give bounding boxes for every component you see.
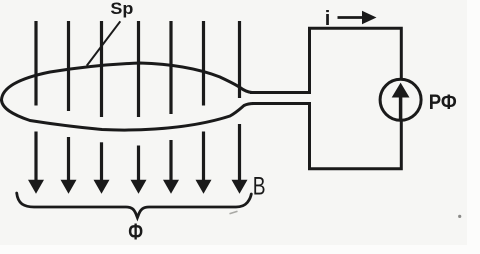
smudge artifact under brace right <box>230 211 238 214</box>
field line B7 <box>232 21 248 194</box>
field line B1 <box>28 21 44 194</box>
coil Sp (elliptical loop) <box>2 63 255 130</box>
wire: bottom lead and lower-left circuit side <box>252 104 401 169</box>
svg-text:B: B <box>253 173 266 201</box>
svg-text:РФ: РФ <box>429 90 457 114</box>
svg-text:Ф: Ф <box>128 219 143 245</box>
leader line from Sp to coil <box>87 21 121 65</box>
flux meter РФ (circle) <box>380 79 421 120</box>
field line B6 <box>196 21 212 194</box>
brace under field lines <box>17 193 252 218</box>
current arrow i <box>338 11 377 24</box>
speck artifact near bottom right <box>458 215 461 218</box>
field line B4 <box>131 21 147 194</box>
svg-text:i: i <box>325 8 331 30</box>
wire: top lead and upper-left circuit side <box>250 28 401 92</box>
flux meter arrow <box>392 83 410 121</box>
field line B3 <box>94 21 110 194</box>
field line B2 <box>61 21 77 194</box>
field line B5 <box>163 21 179 194</box>
svg-text:Sp: Sp <box>110 0 133 18</box>
